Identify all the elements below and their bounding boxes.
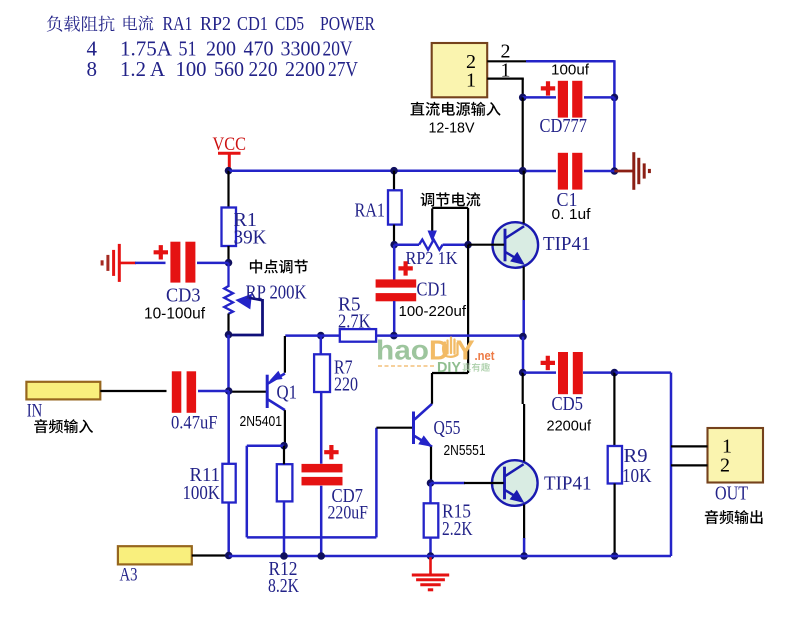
wire mid rail (285, 334, 340, 337)
svg-text:A3: A3 (120, 565, 138, 586)
svg-text:CD1: CD1 (237, 13, 268, 35)
node Q1-collector (280, 442, 288, 450)
svg-text:CD5: CD5 (275, 13, 304, 35)
RP wiper bracket (261, 299, 264, 335)
wire R1 to node (227, 246, 229, 263)
node rail-right (519, 167, 527, 175)
RP2 wiper bracket (432, 207, 468, 209)
wire CD5 to corner (614, 371, 671, 374)
svg-text:2: 2 (720, 455, 730, 477)
wire Q2 emitter (523, 267, 525, 302)
wire R15 to rail (429, 538, 432, 556)
connector OUT box (708, 428, 764, 483)
wire VCC to R1 (227, 171, 229, 208)
wire Q1 collector down (284, 410, 286, 446)
svg-text:VCC: VCC (213, 134, 247, 155)
node C1-left (519, 167, 527, 175)
potentiometer RP2 1K zigzag (394, 243, 419, 246)
svg-text:TIP41: TIP41 (543, 233, 591, 255)
wire Q1 emitter up (284, 336, 286, 373)
wire Q55 collector (431, 373, 433, 404)
label 中点调节 (250, 260, 308, 274)
node RA1-bottom (390, 241, 398, 249)
resistor R11 (222, 464, 235, 503)
wire loop right up (375, 428, 378, 538)
svg-text:2200uf: 2200uf (547, 418, 592, 435)
svg-text:2200: 2200 (285, 57, 325, 81)
transistor Q2 TIP41 upper (493, 222, 539, 268)
wire CD1 bottom (393, 301, 396, 336)
resistor R9 (608, 446, 622, 484)
wire RP node down (227, 335, 230, 392)
node CD5-left (519, 369, 527, 377)
node Q3-emitter-rail (520, 552, 528, 560)
svg-text:10-100uf: 10-100uf (144, 306, 206, 323)
node rail-left (225, 552, 233, 560)
svg-text:RP2: RP2 (200, 13, 231, 35)
label 音频输入 (34, 419, 93, 433)
wire R11 to rail (227, 503, 230, 557)
wire loop bottom (247, 536, 377, 539)
resistor R15 (424, 503, 439, 537)
wire R7 to CD7 (320, 392, 323, 464)
node rail-R12 (280, 552, 288, 560)
ground right (632, 152, 635, 190)
label 调节电流 (421, 192, 481, 206)
RP2 wiper arrow (431, 209, 433, 233)
capacitor CD1 polarity + (398, 261, 412, 275)
capacitor 0.47uF (172, 371, 182, 413)
wire cap to Q1 base (198, 390, 229, 393)
wire OUT pin1 (671, 445, 708, 447)
wire loop left (247, 444, 284, 447)
wire power vertical right (613, 97, 616, 171)
svg-text:Q1: Q1 (277, 381, 298, 403)
wire base to Q2 (468, 244, 504, 246)
node CD1-bottom (390, 332, 398, 340)
wire OUT pin2 (671, 464, 708, 466)
node R7-top (317, 332, 325, 340)
wire A3 to rail (192, 554, 229, 556)
svg-text:hao: hao (376, 335, 429, 366)
wire CD777 row (523, 96, 556, 99)
svg-text:100uf: 100uf (551, 62, 590, 79)
connector IN box (26, 382, 100, 400)
wire R7 top (320, 336, 323, 355)
resistor RA1 (388, 190, 402, 224)
wire ground to CD3 (119, 262, 136, 265)
wire CD5 row (523, 371, 556, 374)
resistor R1 (222, 208, 237, 247)
svg-text:CD3: CD3 (166, 285, 201, 307)
wire Q55 emitter (430, 447, 432, 483)
wire top rail (229, 169, 523, 172)
resistor R7 (314, 354, 330, 392)
capacitor CD7 polarity + (324, 445, 338, 459)
capacitor CD1 (376, 279, 417, 287)
svg-text:R9: R9 (624, 445, 648, 467)
wire Q3 collector (522, 373, 524, 404)
wire node to RP (227, 263, 229, 287)
wire RA1 to node (393, 225, 395, 246)
capacitor CD777 (558, 81, 568, 118)
label 音频输出 (705, 510, 763, 524)
wire CD1 top (393, 245, 396, 280)
capacitor CD777 polarity + (541, 81, 555, 95)
capacitor CD7 (302, 464, 343, 473)
wire pin1 black (487, 77, 524, 79)
node RP2-right (464, 241, 472, 249)
wire bottom rail (229, 555, 671, 558)
node Q55-emitter (427, 479, 435, 487)
wire R9 bottom (613, 484, 615, 557)
node RP-bottom (225, 331, 233, 339)
svg-text:1.2 A: 1.2 A (120, 57, 166, 81)
svg-text:39K: 39K (234, 227, 268, 249)
svg-text:560: 560 (214, 57, 244, 81)
svg-text:2N5401: 2N5401 (240, 413, 283, 430)
node Q1-base-node (225, 387, 233, 395)
wire Q3 base (431, 482, 466, 485)
wire to right ground (614, 170, 632, 173)
node RA1-top (390, 167, 398, 175)
capacitor CD5 polarity + (541, 356, 555, 370)
svg-text:CD777: CD777 (540, 115, 588, 137)
wire Q2 collector (523, 171, 525, 224)
svg-text:POWER: POWER (320, 13, 375, 35)
svg-text:100-220uf: 100-220uf (399, 303, 467, 320)
node CD5-right (611, 369, 619, 377)
svg-text:0.47uF: 0.47uF (171, 412, 218, 433)
wire IN to cap (100, 390, 166, 392)
connector A3 box (118, 546, 192, 564)
svg-text:RP2 1K: RP2 1K (406, 248, 458, 268)
svg-text:220: 220 (249, 57, 278, 81)
resistor R12 (277, 464, 293, 501)
svg-text:100: 100 (176, 57, 207, 81)
svg-text:100K: 100K (183, 482, 221, 504)
wire R9 top (613, 373, 615, 446)
svg-text:TIP41: TIP41 (544, 472, 592, 494)
wire CD3 to node (197, 262, 229, 265)
connector J1 DC power input (432, 43, 488, 97)
svg-text:220: 220 (334, 374, 358, 396)
svg-text:8.2K: 8.2K (268, 575, 299, 597)
svg-text:12-18V: 12-18V (429, 121, 475, 137)
node Q2-emitter (519, 333, 527, 341)
transistor Q55 (412, 412, 415, 445)
ground bottom (429, 556, 432, 574)
svg-text:RA1: RA1 (355, 200, 386, 222)
wire Q3 emitter (523, 505, 525, 540)
watermark haoDIY (376, 335, 495, 376)
svg-text:RP 200K: RP 200K (246, 282, 307, 304)
node ground-rail (427, 552, 435, 560)
svg-text:8: 8 (87, 57, 98, 81)
capacitor CD3 polarity + (154, 245, 168, 259)
ground left (118, 244, 121, 282)
svg-text:0. 1uf: 0. 1uf (552, 206, 592, 223)
wire Q1 base (229, 391, 266, 393)
svg-text:.net: .net (475, 348, 496, 363)
wire loop to Q55 base (376, 427, 413, 429)
svg-text:2.7K: 2.7K (338, 311, 371, 333)
svg-text:Q55: Q55 (434, 417, 461, 439)
svg-text:220uF: 220uF (328, 503, 369, 524)
svg-text:1: 1 (466, 70, 476, 92)
capacitor CD3 (170, 242, 180, 283)
svg-text:27V: 27V (328, 57, 358, 81)
svg-text:OUT: OUT (715, 483, 748, 505)
wire R12 top (283, 446, 285, 465)
capacitor C1 (558, 153, 568, 190)
capacitor CD5 (558, 352, 568, 394)
wire RP2-right down (467, 245, 469, 373)
svg-text:10K: 10K (622, 465, 652, 487)
wire C1 row (523, 170, 556, 173)
potentiometer RP 200K (224, 286, 233, 314)
resistor R5 (340, 329, 376, 342)
wire pin2 black (487, 60, 527, 62)
svg-text:2N5551: 2N5551 (444, 442, 486, 459)
svg-text:2.2K: 2.2K (442, 518, 473, 540)
RP wiper arrow (235, 294, 252, 310)
wire emitter node down (522, 337, 525, 374)
wire R12 bottom (283, 501, 286, 556)
wire pin2 blue (526, 60, 614, 63)
node R9-rail (611, 552, 619, 560)
node power-left (519, 94, 527, 102)
svg-text:DIY: DIY (437, 360, 461, 376)
wire rail to RA1 (393, 171, 395, 191)
node VCC (225, 167, 233, 175)
svg-text:RA1: RA1 (163, 13, 193, 35)
svg-text:IN: IN (27, 401, 43, 422)
wire CD7 to rail (320, 486, 323, 556)
VCC symbol (218, 152, 241, 155)
node C1-right (611, 167, 619, 175)
wire power vertical left (522, 97, 524, 171)
svg-text:CD1: CD1 (417, 278, 448, 300)
node rail-CD7 (317, 552, 325, 560)
transistor Q3 TIP41 lower (492, 460, 538, 506)
wire node to R11 (227, 391, 230, 464)
wire node to R15 (429, 483, 432, 503)
svg-text:CD5: CD5 (552, 393, 584, 415)
transistor Q1 (266, 375, 269, 408)
node power-right (611, 94, 619, 102)
node R1-bottom (225, 259, 233, 267)
label 直流电源输入 (410, 102, 500, 116)
